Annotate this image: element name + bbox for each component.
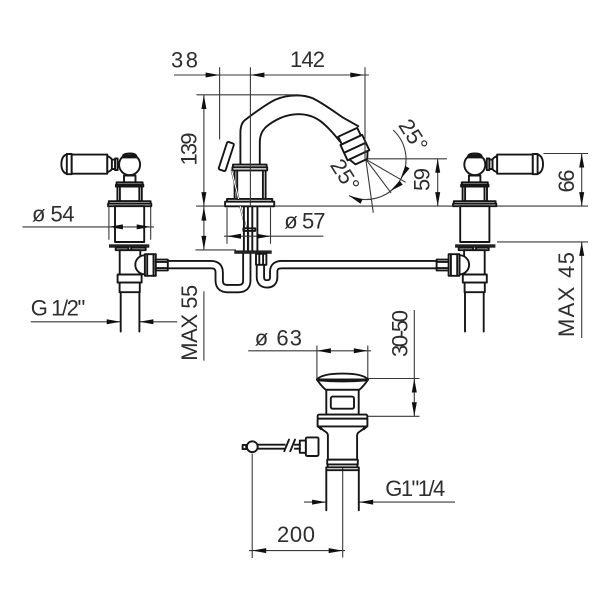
dimension G1/2 line (31, 321, 121, 323)
collar (120, 283, 140, 293)
dimension 30-50 (413, 310, 415, 416)
body with waist (320, 426, 366, 459)
rod elbow plate (243, 228, 255, 231)
valve left (61, 154, 167, 332)
boss front plate (300, 441, 306, 453)
outlet shoulder (135, 255, 145, 274)
overflow window (331, 397, 354, 409)
lever neck (112, 160, 115, 169)
rod break symbol (286, 439, 295, 454)
dimension MAX 45 (581, 242, 583, 338)
lever rod (258, 445, 301, 449)
ball top cap (123, 154, 136, 156)
spout flange skirt (225, 202, 274, 207)
pop-up rod upper (232, 171, 239, 200)
backnut plate (109, 244, 149, 247)
extension line from ball (251, 454, 253, 559)
lever taper (107, 156, 112, 172)
lever boss (306, 437, 319, 456)
washer plate (234, 250, 271, 253)
pop-up rod knob (218, 142, 234, 172)
ball joint (119, 154, 140, 175)
ref line aerator outlet (59) (366, 158, 447, 160)
deck line (196, 205, 588, 207)
flange 2 skirt (108, 204, 151, 207)
valve right (mirror) (437, 154, 543, 332)
shank below deck (244, 206, 258, 250)
dimension 59 vertical (437, 159, 439, 206)
cap skirt (317, 380, 368, 390)
spout flange plate (o57) (227, 199, 272, 202)
aerator (337, 127, 372, 167)
lever cylinder (72, 155, 108, 174)
drain tailpipe (326, 467, 359, 510)
svg-text:ø 63: ø 63 (255, 326, 302, 351)
supply tube right (260, 253, 436, 284)
ref line backnut top right (MAX45) (497, 241, 588, 243)
o54 dim line over body (22, 226, 154, 228)
dimension G1"1/4 (304, 501, 326, 503)
tailpipe (121, 292, 140, 331)
ref line top of spout (139) (197, 94, 300, 96)
ref line lever top (66) (544, 153, 589, 155)
extension lines o54 flange (108, 207, 110, 240)
rod vertical (247, 231, 249, 251)
ring (118, 275, 142, 283)
gooseneck tube fill (240, 95, 358, 168)
spout body (235, 170, 266, 199)
extension line aerator outlet (364, 67, 366, 120)
spray arc arrowheads (398, 166, 409, 181)
extension line node 38 (pop-up rod) (219, 67, 221, 139)
flange 1 skirt (116, 185, 143, 187)
dimension 38/142 top line (174, 74, 369, 76)
ref line washer top (MAX55) (196, 249, 237, 251)
dome cap (317, 374, 368, 380)
cap rim line (318, 380, 367, 381)
neck (326, 390, 358, 415)
lower body (120, 250, 141, 274)
aerator ext over bands (364, 120, 366, 159)
lever end cap dome (61, 154, 67, 174)
hex nut below washer (256, 254, 266, 265)
o57 dim line over shank (224, 235, 323, 237)
extension line drain centerline (342, 467, 344, 558)
block corner feet (318, 426, 367, 429)
supply tube left (168, 253, 247, 289)
dimension 200 (249, 550, 345, 552)
threaded body below deck (115, 206, 144, 242)
dimension 139 vertical line (203, 95, 205, 250)
spout assembly (218, 95, 372, 264)
dimension 66 vertical (581, 154, 583, 207)
svg-text:139: 139 (176, 133, 201, 166)
rod ball (247, 441, 258, 452)
svg-text:G1"1/4: G1"1/4 (385, 476, 445, 501)
spout body cap (233, 165, 267, 168)
svg-text:G 1/2": G 1/2" (31, 295, 86, 320)
flange 2 plate (o54) (109, 201, 151, 204)
neck body (117, 187, 141, 202)
shoulder block (318, 419, 368, 427)
svg-text:142: 142 (290, 47, 325, 72)
svg-text:MAX 45: MAX 45 (554, 252, 579, 337)
svg-text:ø 54: ø 54 (32, 202, 75, 227)
flange 1 plate (117, 182, 143, 184)
lever end cap ring (67, 154, 72, 174)
svg-text:ø 57: ø 57 (284, 209, 325, 234)
centerline ext over spout (249, 67, 251, 206)
outlet hex nut (145, 254, 156, 276)
extension lines o57 flange (226, 208, 228, 244)
outlet olive (156, 260, 168, 271)
svg-text:66: 66 (554, 170, 579, 193)
drain assembly (243, 374, 369, 511)
svg-text:59: 59 (410, 168, 435, 191)
lever collar (115, 159, 118, 171)
threaded collar (327, 460, 358, 465)
svg-text:30-50: 30-50 (388, 310, 413, 357)
svg-text:MAX 55: MAX 55 (177, 285, 202, 361)
lever stem (124, 176, 136, 183)
gooseneck outer curve (240, 95, 358, 168)
dimension MAX 55 (201, 207, 206, 221)
spout body inner lines (236, 170, 238, 199)
gooseneck inner curve (260, 114, 340, 168)
shoulder lip (318, 415, 368, 419)
svg-text:200: 200 (277, 522, 315, 547)
spray cone rays 25 deg (349, 130, 406, 213)
pop-up rod lower (240, 206, 246, 229)
ball stub (243, 445, 247, 449)
dimension o63 (248, 350, 371, 352)
backnut tabs (116, 248, 129, 251)
